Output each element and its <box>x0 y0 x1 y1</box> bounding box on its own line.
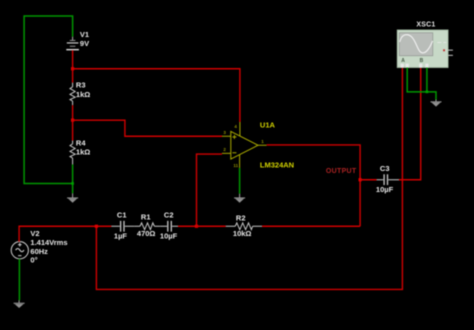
ground (below op-amp) <box>234 194 245 203</box>
label channel B terminal <box>420 58 424 64</box>
junction green node at ground <box>71 182 74 185</box>
label LM324AN <box>260 160 294 169</box>
wire inverting node to R2 <box>197 225 226 227</box>
label 1µF (C1) <box>114 231 127 240</box>
resistor R4 <box>70 141 75 165</box>
wire green loop V1 negative to ground <box>24 16 73 184</box>
svg-text:LM324AN: LM324AN <box>260 160 294 169</box>
ground (below V1/R4) <box>67 193 78 202</box>
svg-text:10kΩ: 10kΩ <box>233 229 252 238</box>
junction C3 tap node <box>359 178 362 181</box>
ground (below V2) <box>14 300 25 308</box>
label R1 <box>141 212 151 221</box>
wire op-amp output to feedback node <box>267 145 361 226</box>
label OUTPUT net <box>326 168 357 175</box>
wire node A to op-amp V+ pin <box>73 69 240 122</box>
svg-text:C1: C1 <box>117 210 127 219</box>
wire scope channel A probe (input node to scope) <box>96 68 402 290</box>
wire op-amp V- pin to ground (green) <box>239 168 241 194</box>
svg-text:470Ω: 470Ω <box>137 229 156 238</box>
svg-text:C2: C2 <box>164 210 174 219</box>
svg-text:R1: R1 <box>141 212 151 221</box>
wire battery bottom to node A <box>72 50 74 69</box>
label C1 <box>117 210 127 219</box>
wire scope B- to ground bus (green) <box>426 68 428 92</box>
label 10kΩ (R2) <box>233 229 252 238</box>
op-amp U1A <box>222 122 267 168</box>
resistor R1 <box>134 223 160 230</box>
label 0° <box>30 255 37 264</box>
wire feedback node to C3 <box>360 179 377 181</box>
junction node A <box>71 67 74 70</box>
wire inverting node to op-amp - input <box>197 154 223 226</box>
resistor R2 <box>226 223 262 230</box>
label 9V <box>80 39 89 48</box>
label XSC1 <box>416 22 435 29</box>
label R3 <box>76 80 86 89</box>
wire C2 to inverting node <box>178 225 197 227</box>
pin 4 (V+) <box>234 124 237 129</box>
label V1 <box>80 30 89 39</box>
svg-text:U1A: U1A <box>260 120 276 129</box>
junction node B <box>71 119 74 122</box>
svg-text:OUTPUT: OUTPUT <box>326 168 357 175</box>
svg-text:C3: C3 <box>380 164 390 173</box>
label 1kΩ (R3) <box>76 90 90 99</box>
wire node B to R4 top <box>72 120 74 140</box>
wire R2 to feedback node <box>262 225 360 227</box>
svg-text:10µF: 10µF <box>376 185 394 194</box>
svg-text:A: A <box>401 58 405 64</box>
label 470Ω (R1) <box>137 229 156 238</box>
oscilloscope XSC1 <box>397 30 453 68</box>
junction green scope ground node <box>426 91 429 94</box>
wire V2 top to C1 <box>19 226 111 242</box>
svg-text:V2: V2 <box>30 229 39 238</box>
label R4 <box>76 139 86 148</box>
label U1A <box>260 120 276 129</box>
capacitor C1 <box>111 221 134 232</box>
wire R3 bottom to node B <box>72 105 74 120</box>
label R2 <box>236 213 246 222</box>
pin 11 (V-) <box>233 163 238 168</box>
label 60Hz <box>30 247 48 256</box>
label V2 <box>30 229 39 238</box>
label channel A terminal <box>401 58 405 64</box>
capacitor C3 <box>377 174 399 185</box>
wire node A to R3 top <box>72 69 74 83</box>
label 1.414Vrms <box>30 238 67 247</box>
wire green R4 bottom to ground node <box>72 164 74 193</box>
junction scope-A tap node <box>95 225 98 228</box>
label 10µF (C2) <box>160 231 178 240</box>
wire scope A- to ground (green) <box>407 68 436 100</box>
svg-text:11: 11 <box>233 163 238 168</box>
svg-text:R3: R3 <box>76 80 86 89</box>
capacitor C2 <box>160 221 178 232</box>
ground (scope) <box>431 99 442 106</box>
pin 3 (+ input) <box>223 130 226 135</box>
battery V1 <box>66 37 79 50</box>
label 10µF (C3) <box>376 185 394 194</box>
wire node B to op-amp + input <box>73 120 222 136</box>
pin 1 (output) <box>261 139 264 144</box>
svg-text:9V: 9V <box>80 39 89 48</box>
pin 2 (- input) <box>223 147 226 152</box>
svg-text:V1: V1 <box>80 30 89 39</box>
resistor R3 <box>70 83 75 106</box>
voltage source V2 <box>11 242 28 259</box>
svg-text:1µF: 1µF <box>114 231 127 240</box>
junction inverting node <box>195 225 198 228</box>
wire V2 bottom to ground (green) <box>18 259 20 301</box>
svg-text:0°: 0° <box>30 255 37 264</box>
svg-text:1kΩ: 1kΩ <box>76 147 90 156</box>
svg-text:XSC1: XSC1 <box>416 22 435 29</box>
label 1kΩ (R4) <box>76 147 90 156</box>
svg-text:R2: R2 <box>236 213 246 222</box>
wire C3 to scope channel B <box>399 68 421 180</box>
label C2 <box>164 210 174 219</box>
svg-text:1.414Vrms: 1.414Vrms <box>30 238 67 247</box>
svg-text:1kΩ: 1kΩ <box>76 90 90 99</box>
svg-text:10µF: 10µF <box>160 231 178 240</box>
label C3 <box>380 164 390 173</box>
svg-text:B: B <box>420 58 424 64</box>
svg-text:R4: R4 <box>76 139 86 148</box>
